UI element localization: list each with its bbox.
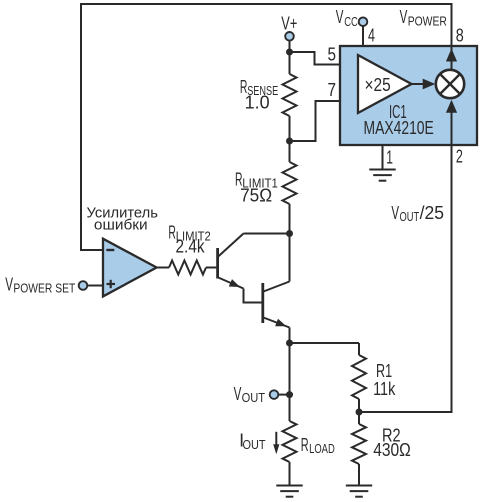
- svg-text:V: V: [400, 7, 408, 27]
- node junction feedback tap: [286, 340, 293, 347]
- label IC1: [389, 102, 407, 122]
- svg-text:LOAD: LOAD: [309, 441, 335, 456]
- node junction R1/R2: [356, 409, 363, 416]
- wire R_SENSE to R_LIMIT1: [289, 116, 291, 162]
- pin number 4: [368, 25, 375, 45]
- label MAX4210E: [364, 118, 434, 138]
- wire output to R1: [290, 342, 360, 344]
- svg-text:OUT: OUT: [400, 209, 420, 224]
- label V_OUT/25: [391, 203, 444, 224]
- resistor R_LOAD: [283, 421, 297, 462]
- ground R_LOAD: [276, 486, 302, 497]
- svg-text:75Ω: 75Ω: [240, 185, 272, 205]
- svg-text:V: V: [391, 203, 399, 223]
- node junction V_OUT: [286, 391, 293, 398]
- label R1: [376, 361, 392, 381]
- resistor R_SENSE: [283, 74, 297, 116]
- wire V_OUT terminal to node: [278, 394, 289, 396]
- label R_LIMIT1: [235, 170, 278, 191]
- wire pin 2 into multiplier: [446, 100, 457, 145]
- label V+: [281, 13, 297, 33]
- resistor R_LIMIT2: [169, 261, 206, 275]
- V_OUT terminal: [270, 390, 279, 399]
- V_POWER SET input terminal: [79, 281, 88, 290]
- current arrow I_OUT: [273, 432, 279, 455]
- svg-text:R1: R1: [376, 361, 392, 381]
- label V_OUT: [234, 384, 266, 405]
- label V_CC: [336, 7, 358, 29]
- op-amp + input mark: [107, 280, 116, 288]
- transistor Q1 (NPN): [218, 234, 244, 289]
- op-amp IC U1 MAX4210E box: [340, 46, 477, 145]
- wire R2 to ground: [358, 464, 360, 486]
- wire Q2 emitter to output rail: [289, 328, 291, 422]
- wire pin 8 output (V_POWER): [446, 46, 457, 70]
- label V_POWER SET: [5, 275, 75, 296]
- op-amp U2 error amplifier: [103, 239, 157, 297]
- wire R_LIMIT2 to Q1 base: [206, 267, 216, 269]
- value 2.4k: [176, 237, 206, 257]
- svg-text:7: 7: [328, 80, 337, 100]
- wire amp output to multiplier: [412, 79, 436, 90]
- svg-text:/25: /25: [420, 203, 444, 223]
- label R_LIMIT2: [168, 222, 210, 243]
- node junction pin7 tap: [286, 138, 293, 145]
- value 75Ω: [240, 185, 272, 205]
- resistor R2: [352, 424, 366, 464]
- svg-text:OUT: OUT: [242, 390, 266, 405]
- label Усилитель ошибки: [87, 205, 159, 234]
- wire R1 to R2: [358, 399, 360, 424]
- svg-text:1: 1: [386, 148, 393, 168]
- svg-text:OUT: OUT: [243, 437, 266, 452]
- node junction Q1 collector: [286, 230, 293, 237]
- value 430Ω: [373, 440, 411, 460]
- svg-text:V: V: [234, 384, 242, 404]
- svg-text:ошибки: ошибки: [94, 217, 148, 234]
- wire Q1 collector to node: [244, 233, 290, 235]
- pin number 5: [328, 44, 337, 64]
- svg-text:CC: CC: [344, 14, 358, 29]
- svg-text:430Ω: 430Ω: [373, 440, 411, 460]
- svg-text:R: R: [301, 435, 309, 455]
- pin number 8: [456, 25, 464, 45]
- V_CC power terminal: [359, 17, 368, 26]
- node junction V+/pin5: [286, 49, 293, 56]
- op-amp gain stage ×25: [358, 55, 412, 113]
- wire feedback loop (op-amp − input to V_POWER rail): [81, 4, 452, 250]
- V+ power terminal: [285, 32, 294, 41]
- wire V_POWER SET to + input: [87, 285, 103, 287]
- svg-text:5: 5: [328, 44, 337, 64]
- label V_POWER: [400, 7, 447, 29]
- wire V+ to R_SENSE: [289, 41, 291, 75]
- value 11k: [373, 379, 396, 399]
- label R2: [382, 426, 401, 446]
- svg-text:4: 4: [368, 25, 375, 45]
- pin number 7: [328, 80, 337, 100]
- svg-text:1.0: 1.0: [245, 92, 270, 112]
- svg-text:2: 2: [456, 146, 463, 166]
- label I_OUT: [239, 431, 266, 452]
- svg-text:2.4k: 2.4k: [176, 237, 206, 257]
- svg-text:POWER SET: POWER SET: [13, 281, 75, 296]
- pin number 2: [456, 146, 463, 166]
- svg-text:V: V: [336, 7, 344, 27]
- svg-text:MAX4210E: MAX4210E: [364, 118, 434, 138]
- wire R_LOAD to ground: [289, 462, 291, 486]
- ground R2: [346, 486, 372, 497]
- transistor Q2 (NPN): [263, 282, 290, 328]
- label ×25: [365, 75, 391, 95]
- svg-text:V+: V+: [281, 13, 297, 33]
- svg-text:×25: ×25: [365, 75, 391, 95]
- multiplier symbol (circle-X): [436, 70, 464, 98]
- wire pin 1 to ground: [382, 145, 384, 170]
- wire pin 7 (V+ sense low side): [290, 101, 359, 141]
- svg-text:8: 8: [456, 25, 464, 45]
- svg-text:V: V: [5, 275, 13, 295]
- resistor R_LIMIT1: [283, 162, 297, 204]
- wire pin 2 to R1/R2 divider: [359, 145, 452, 412]
- value 1.0: [245, 92, 270, 112]
- resistor R1: [352, 355, 366, 399]
- svg-text:11k: 11k: [373, 379, 396, 399]
- pin number 1: [386, 148, 393, 168]
- wire pin 5 (V+ sense high side): [290, 52, 359, 65]
- wire pin 4 (V_CC): [362, 26, 364, 46]
- wire to R1: [358, 343, 360, 355]
- label R_LOAD: [301, 435, 335, 456]
- label R_SENSE: [240, 77, 279, 98]
- wire op-amp output: [157, 267, 169, 269]
- svg-text:POWER: POWER: [408, 13, 447, 28]
- op-amp − input mark: [106, 249, 114, 251]
- ground IC pin 1: [369, 170, 395, 181]
- wire Q1 emitter to Q2 base: [244, 289, 262, 303]
- wire R_LIMIT1 to transistor collectors: [289, 204, 291, 282]
